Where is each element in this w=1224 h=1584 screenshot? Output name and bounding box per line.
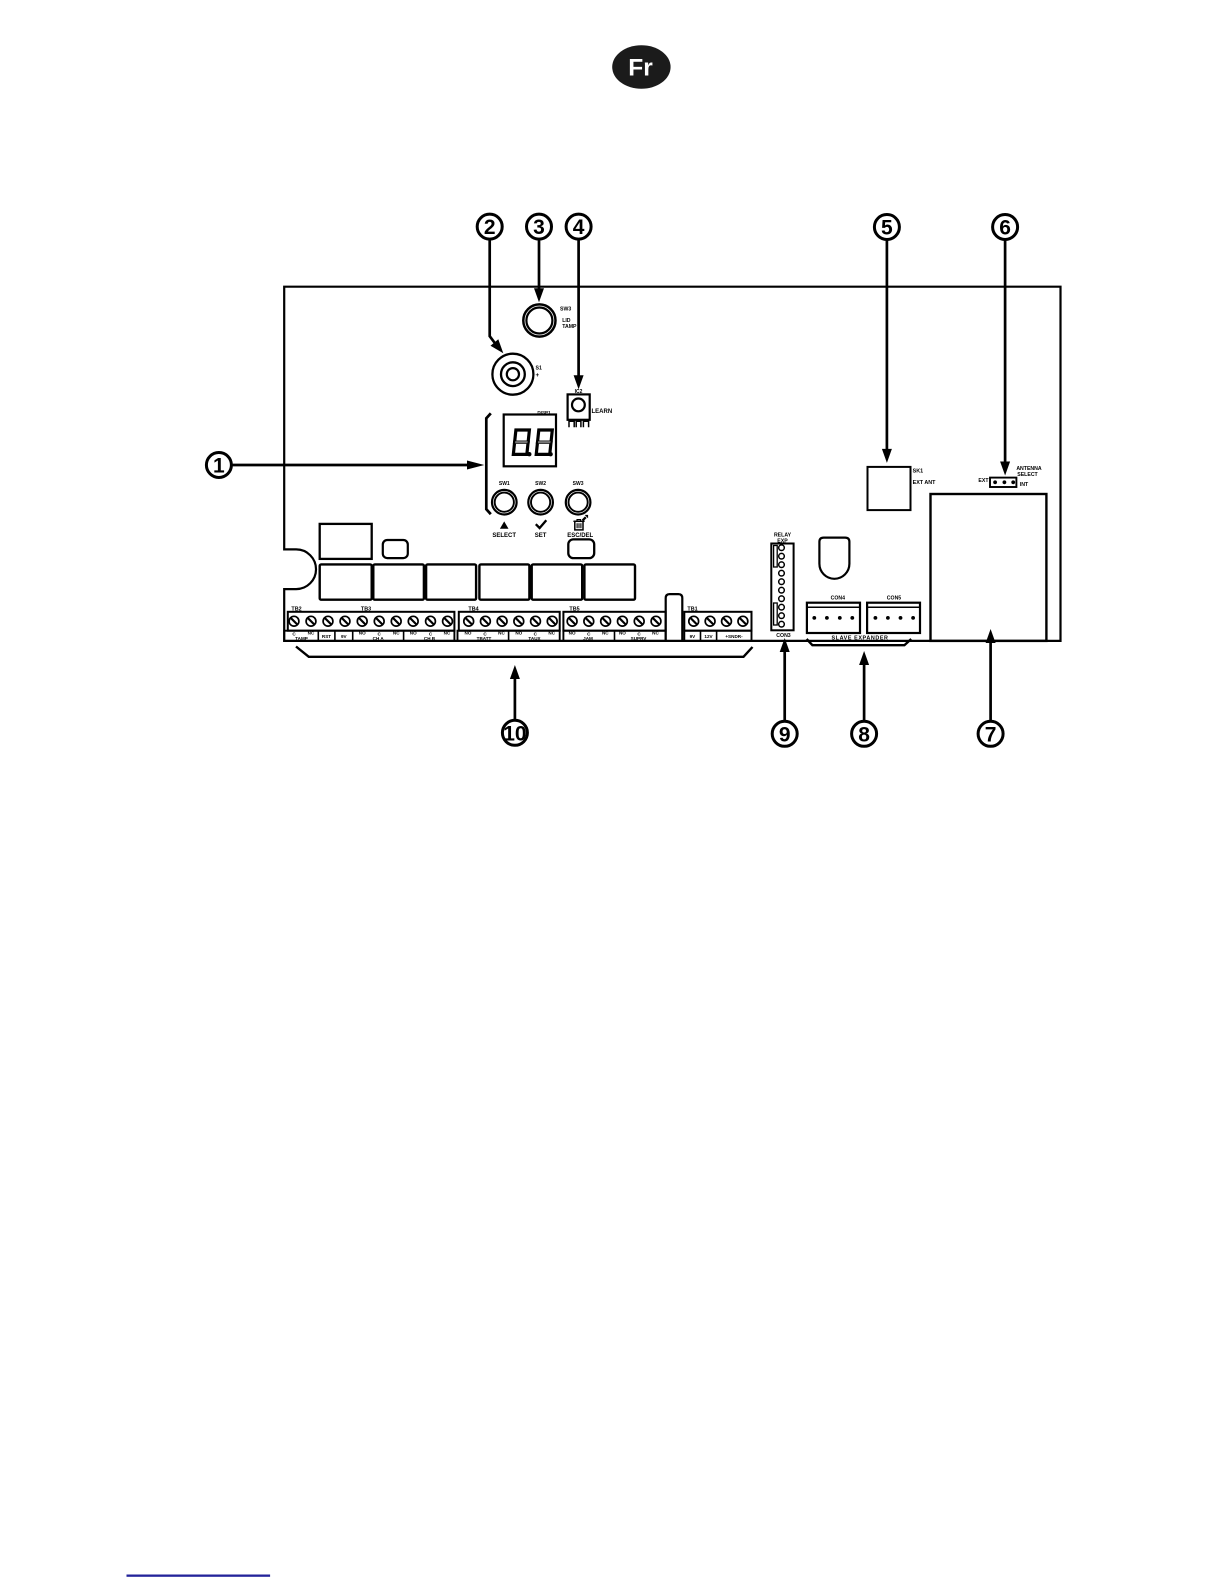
display DISP1 box	[504, 415, 556, 467]
svg-text:4: 4	[573, 216, 585, 239]
svg-text:EXP: EXP	[777, 538, 788, 544]
svg-text:NC: NC	[498, 631, 505, 636]
relay K2	[373, 564, 424, 599]
svg-text:SW2: SW2	[535, 481, 546, 487]
svg-text:NO: NO	[619, 631, 626, 636]
label DISP1	[537, 410, 551, 415]
label EXT ANT	[913, 480, 937, 486]
divider stub between TB5 and TB1	[666, 594, 683, 641]
svg-text:JAM: JAM	[583, 636, 593, 641]
relay K6	[584, 564, 635, 599]
arrow from callout 6 to antenna select jumper	[1004, 240, 1007, 462]
socket SK1 (ext antenna)	[868, 467, 911, 510]
label SET	[535, 533, 547, 539]
svg-text:CH B: CH B	[424, 636, 436, 641]
callout 10	[502, 720, 527, 745]
transformer/power module box	[931, 494, 1047, 641]
svg-text:EXT ANT: EXT ANT	[913, 480, 937, 486]
connector CON3 (relay expansion header)	[771, 544, 793, 631]
callout 2	[477, 214, 502, 239]
connector CON5	[867, 603, 920, 633]
label INT (jumper)	[1020, 482, 1029, 488]
arrow from callout 9 to CON3	[783, 651, 786, 721]
TB2/TB3 terminal labels row	[284, 631, 454, 641]
svg-text:TB1: TB1	[687, 606, 697, 612]
svg-text:1: 1	[213, 455, 225, 478]
svg-text:NC: NC	[548, 631, 555, 636]
label TB3	[361, 606, 371, 612]
svg-text:NO: NO	[465, 631, 472, 636]
set check icon	[536, 520, 547, 528]
svg-text:SW3: SW3	[560, 307, 571, 313]
svg-text:8: 8	[858, 723, 870, 746]
label ESC/DEL	[567, 533, 593, 539]
svg-text:TAMP: TAMP	[295, 636, 308, 641]
svg-text:SELECT: SELECT	[1017, 472, 1038, 478]
svg-text:6: 6	[999, 217, 1011, 240]
svg-text:LEARN: LEARN	[592, 409, 613, 415]
esc/del trash icon	[573, 515, 588, 530]
arrow from callout 8 to slave expander connectors	[863, 664, 866, 721]
callout 3	[527, 214, 552, 239]
svg-text:NC: NC	[652, 631, 659, 636]
relay K5	[532, 564, 583, 599]
svg-text:CON4: CON4	[831, 596, 846, 602]
bracket grouping display and buttons	[486, 413, 491, 514]
small rounded component box	[383, 540, 408, 558]
callout 7	[978, 721, 1003, 746]
TB1 terminal labels row	[684, 631, 751, 641]
learn button IC2	[568, 394, 590, 427]
arrow from callout 7 to transformer area	[989, 642, 992, 721]
svg-text:SET: SET	[535, 533, 547, 539]
svg-text:SW3: SW3	[573, 481, 584, 487]
svg-text:CON5: CON5	[887, 596, 902, 602]
svg-text:9V: 9V	[341, 634, 348, 639]
svg-text:12V: 12V	[704, 634, 713, 639]
label TB2	[291, 606, 301, 612]
label CON4	[831, 596, 846, 602]
label CON3	[776, 633, 791, 639]
relay K1	[320, 564, 372, 599]
component box (large rectangle, upper left)	[320, 524, 372, 559]
label TB1	[687, 606, 697, 612]
label TB4	[468, 606, 478, 612]
svg-text:NC: NC	[444, 631, 451, 636]
footer rule (blue)	[127, 1575, 271, 1577]
svg-text:NC: NC	[393, 631, 400, 636]
button SW2	[528, 481, 553, 515]
svg-text:5: 5	[881, 217, 893, 240]
svg-text:TB2: TB2	[291, 606, 301, 612]
svg-text:SELECT: SELECT	[492, 533, 516, 539]
label S1 +	[536, 365, 542, 379]
callout 9	[772, 721, 797, 746]
select triangle icon	[500, 521, 509, 528]
label CON5	[887, 596, 902, 602]
label SLAVE EXPANDER	[831, 635, 888, 641]
svg-text:TB3: TB3	[361, 606, 371, 612]
svg-text:CH A: CH A	[373, 636, 385, 641]
svg-text:ESC/DEL: ESC/DEL	[567, 533, 593, 539]
Fr language badge	[612, 45, 670, 89]
label LEARN	[592, 409, 613, 415]
PCB board outline with left-edge notch	[284, 287, 1060, 641]
label RELAY EXP	[774, 533, 792, 545]
buzzer S1	[492, 354, 533, 395]
callout 5	[874, 215, 899, 240]
svg-text:NO: NO	[359, 631, 366, 636]
svg-text:TBATT: TBATT	[477, 636, 492, 641]
svg-text:INT: INT	[1020, 482, 1029, 488]
underbrace grouping all terminal blocks	[296, 647, 753, 657]
svg-text:S1: S1	[536, 365, 542, 371]
callout 8	[852, 721, 877, 746]
svg-text:10: 10	[503, 722, 526, 745]
label SK1	[913, 469, 924, 475]
TB4 terminal labels row	[458, 631, 560, 641]
svg-text:+: +	[536, 372, 540, 379]
svg-text:NO: NO	[410, 631, 417, 636]
callout 1	[206, 453, 231, 478]
svg-text:TAMP: TAMP	[562, 324, 577, 330]
svg-text:IC2: IC2	[575, 389, 583, 395]
terminal block TB2/TB3 screw row	[288, 612, 455, 631]
svg-text:SK1: SK1	[913, 469, 924, 475]
arrow from callout 10 to terminal blocks	[514, 678, 517, 720]
label EXT (jumper)	[978, 478, 989, 484]
svg-text:NC: NC	[308, 631, 315, 636]
arrow from callout 3 to lid tamper switch	[538, 240, 541, 289]
svg-text:NO: NO	[569, 631, 576, 636]
svg-text:NC: NC	[602, 631, 609, 636]
svg-text:SUPRV: SUPRV	[631, 636, 648, 641]
TB5 terminal labels row	[563, 631, 665, 641]
svg-text:TAUX: TAUX	[528, 636, 541, 641]
svg-text:EXT: EXT	[978, 478, 989, 484]
label ANTENNA SELECT	[1016, 466, 1042, 478]
D-shaped component (sounder/holder)	[819, 538, 849, 579]
lid tamper switch SW3 (top)	[523, 304, 555, 336]
svg-text:RST: RST	[322, 634, 331, 639]
svg-text:3: 3	[533, 216, 545, 239]
label IC2	[575, 389, 583, 395]
antenna select jumper	[990, 478, 1016, 487]
terminal block TB1 screw row	[684, 612, 751, 631]
svg-text:CON3: CON3	[776, 633, 791, 639]
svg-text:TB4: TB4	[468, 606, 478, 612]
relay K4	[479, 564, 529, 599]
arrow from callout 1 to display group	[232, 461, 484, 470]
underbrace for slave expander	[807, 639, 912, 645]
svg-text:9: 9	[779, 723, 791, 746]
svg-text:Fr: Fr	[628, 55, 653, 82]
label TB5	[569, 606, 579, 612]
seven segment digits 8.8.	[513, 430, 552, 456]
svg-text:DISP1: DISP1	[537, 410, 551, 415]
arrow from callout 2 to buzzer S1	[490, 240, 504, 353]
esc/del pad (rounded rect)	[568, 539, 594, 558]
label SELECT	[492, 533, 516, 539]
button SW3	[566, 481, 591, 515]
svg-text:LID: LID	[562, 318, 571, 324]
svg-text:NO: NO	[515, 631, 522, 636]
button SW1	[492, 481, 517, 515]
terminal block TB4 screw row	[459, 612, 560, 631]
svg-text:2: 2	[484, 216, 496, 239]
svg-text:7: 7	[985, 723, 997, 746]
arrow from callout 5 to SK1	[886, 240, 889, 450]
svg-text:TB5: TB5	[569, 606, 579, 612]
svg-text:9V: 9V	[690, 634, 697, 639]
arrow from callout 4 to learn button	[577, 240, 580, 376]
relay K3	[426, 564, 476, 599]
connector CON4	[807, 603, 860, 633]
svg-text:SW1: SW1	[499, 481, 510, 487]
callout 6	[993, 215, 1018, 240]
terminal block TB5 screw row	[563, 612, 665, 631]
callout 4	[566, 214, 591, 239]
svg-text:+SNDR-: +SNDR-	[725, 634, 743, 639]
svg-text:SLAVE EXPANDER: SLAVE EXPANDER	[831, 635, 888, 641]
label SW3 (lid tamp)	[560, 307, 577, 331]
